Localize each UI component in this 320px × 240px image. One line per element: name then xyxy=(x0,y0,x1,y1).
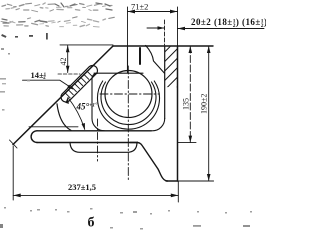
hatch wall section right xyxy=(165,39,178,100)
tick at diagonal end xyxy=(10,140,18,148)
dim 135 line xyxy=(189,46,191,143)
dim 42 arrows xyxy=(66,45,70,72)
scan noise top-left xyxy=(1,3,114,27)
wire cavity top edge left segment xyxy=(94,72,143,74)
dim 237 arrows xyxy=(13,194,178,198)
wire ramp curve bottom right xyxy=(138,143,168,182)
svg-text:71±2: 71±2 xyxy=(131,2,148,12)
wire right edge xyxy=(177,46,179,181)
wire top edge of part xyxy=(113,45,213,47)
angle 45 arrowheads xyxy=(66,97,85,130)
scan noise bottom xyxy=(0,48,252,230)
svg-text:237±1,5: 237±1,5 xyxy=(68,182,96,192)
dim 190 bottom extension xyxy=(166,180,214,182)
svg-text:20±2 (18±12) (16±12): 20±2 (18±12) (16±12) xyxy=(191,17,266,29)
wire foot left rounded cap xyxy=(31,131,37,143)
slot diagonal stadium outline xyxy=(61,65,98,101)
svg-text:42: 42 xyxy=(59,58,68,66)
centerline horizontal ball xyxy=(100,93,159,95)
wire bottom right edge xyxy=(166,180,178,182)
dim 237 line xyxy=(13,194,178,196)
dim 71 extension left xyxy=(127,7,129,46)
wire diagonal face xyxy=(13,46,113,145)
wire left opening wall xyxy=(127,46,129,73)
wire foot top edge / pocket floor xyxy=(37,130,152,132)
dim 20 shelf line xyxy=(178,28,265,30)
wire upper foot surface right xyxy=(130,142,138,144)
svg-text:б: б xyxy=(88,216,95,231)
dim 42 lower extension xyxy=(58,73,80,75)
dim 190 arrows xyxy=(207,46,211,181)
node opening center tick xyxy=(139,48,141,64)
circle ball xyxy=(105,71,152,118)
slot hatch strokes xyxy=(65,71,92,98)
svg-text:190±2: 190±2 xyxy=(200,94,209,114)
dim 20 left arrow line xyxy=(147,27,165,29)
dim 42 top extension xyxy=(60,44,113,46)
dim 237 right extension xyxy=(177,181,179,202)
wire foot bottom edge xyxy=(37,142,138,144)
wire cavity top-left corner xyxy=(92,73,98,79)
wire cavity bottom-left corner xyxy=(92,119,104,131)
dim 71 line xyxy=(128,11,178,13)
wire cavity bottom-right corner xyxy=(152,119,164,131)
wire right lip funnel curve xyxy=(146,45,165,73)
fillet diagonal face to floor xyxy=(57,104,71,131)
wire cavity left wall xyxy=(91,79,93,119)
dim 71 extension right xyxy=(177,7,179,46)
scan noise dots row3 xyxy=(1,33,48,55)
wire cavity right wall xyxy=(164,46,166,119)
dim 190 line xyxy=(208,46,210,181)
angle 45 ref line xyxy=(29,126,78,128)
dim 20 dashed extension xyxy=(164,20,166,45)
svg-text:14±12: 14±12 xyxy=(31,70,47,81)
svg-text:135: 135 xyxy=(182,98,191,110)
cup inner arc xyxy=(101,82,156,125)
leader 14 arrow xyxy=(67,85,73,90)
cup outer arc xyxy=(97,81,159,129)
wire lower pad outline xyxy=(70,143,137,153)
dim 71 arrows xyxy=(128,10,178,14)
dim 42 line xyxy=(67,46,69,73)
dim 135 bottom extension xyxy=(178,142,197,144)
leader 14 underline xyxy=(23,80,73,89)
centerline vertical main xyxy=(127,66,129,182)
dim 237 left extension xyxy=(12,146,14,200)
svg-text:45°+1°: 45°+1° xyxy=(76,102,98,112)
dim 135 arrows xyxy=(189,46,193,143)
angle 45 arc xyxy=(68,98,85,130)
centerline pad vertical xyxy=(97,119,99,161)
